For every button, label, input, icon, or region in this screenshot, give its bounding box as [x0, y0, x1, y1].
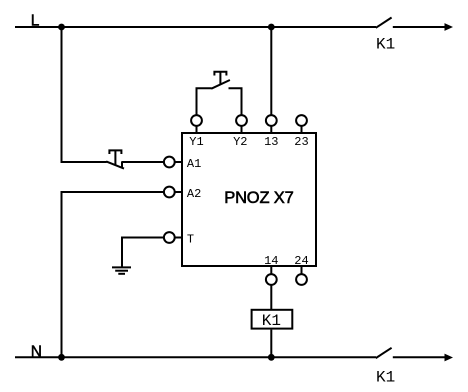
svg-text:K1: K1 — [262, 312, 281, 330]
svg-text:T: T — [187, 232, 194, 246]
svg-text:K1: K1 — [376, 36, 395, 54]
svg-text:13: 13 — [264, 135, 278, 149]
svg-text:24: 24 — [294, 254, 308, 268]
svg-text:PNOZ X7: PNOZ X7 — [224, 189, 294, 207]
svg-text:A2: A2 — [187, 187, 201, 201]
svg-text:L: L — [31, 13, 40, 30]
svg-text:N: N — [31, 343, 42, 360]
svg-text:14: 14 — [264, 254, 278, 268]
svg-text:23: 23 — [294, 135, 308, 149]
svg-text:Y1: Y1 — [189, 135, 203, 149]
svg-text:Y2: Y2 — [233, 135, 247, 149]
svg-text:K1: K1 — [376, 368, 395, 386]
svg-text:A1: A1 — [187, 157, 201, 171]
